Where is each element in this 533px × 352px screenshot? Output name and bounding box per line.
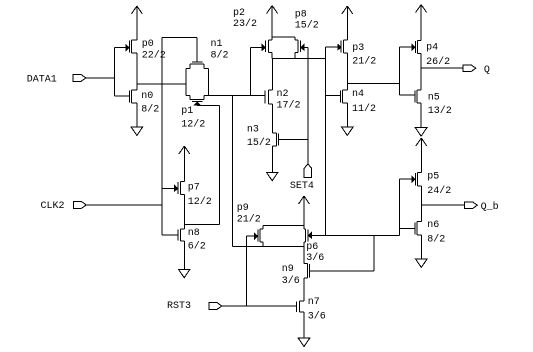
wire n5 source down bbox=[420, 103, 422, 128]
wire pass gate left side bbox=[185, 68, 187, 95]
wire RST3 to n7 gate bbox=[222, 305, 297, 307]
svg-text:13/2: 13/2 bbox=[428, 105, 452, 117]
label n6 8/2 bbox=[427, 220, 445, 245]
svg-text:15/2: 15/2 bbox=[295, 19, 319, 31]
wire n6 source down bbox=[420, 235, 422, 259]
wire p9 rail down bbox=[262, 242, 264, 247]
wire feedback up to p2 gate bbox=[249, 47, 251, 95]
svg-text:n6: n6 bbox=[427, 220, 439, 231]
svg-text:p1: p1 bbox=[181, 106, 193, 117]
wire p4/n5 gate bracket bbox=[398, 47, 400, 95]
wire n4 source down bbox=[346, 103, 348, 127]
input pin DATA1 bbox=[27, 75, 86, 86]
ground below n5 bbox=[415, 128, 427, 136]
svg-text:p2: p2 bbox=[233, 8, 245, 19]
wire p3/n4 gate bracket bbox=[324, 47, 326, 235]
transistor p4 (PMOS) bbox=[399, 40, 421, 53]
wire SET4 vertical bbox=[307, 47, 309, 164]
transistor p9 (PMOS) bbox=[247, 229, 263, 242]
input pin SET4 bbox=[290, 164, 314, 192]
svg-text:n0: n0 bbox=[141, 91, 153, 102]
transistor n5 (NMOS) bbox=[399, 90, 421, 103]
wire n9 source to n7 drain bbox=[303, 278, 305, 301]
label p1 12/2 bbox=[181, 106, 205, 131]
label p7 12/2 bbox=[188, 183, 212, 208]
transistor n0 (NMOS) bbox=[115, 90, 137, 103]
svg-text:12/2: 12/2 bbox=[181, 119, 205, 131]
svg-text:3/6: 3/6 bbox=[306, 252, 324, 264]
svg-text:n7: n7 bbox=[308, 297, 320, 308]
wire DATA1 to inverter gates bbox=[86, 77, 115, 79]
svg-text:n3: n3 bbox=[247, 125, 259, 136]
svg-text:8/2: 8/2 bbox=[141, 104, 159, 116]
label p2 23/2 bbox=[233, 8, 257, 30]
wire p2 rail down bbox=[271, 53, 273, 59]
wire p6 rail up bbox=[303, 225, 305, 229]
wire master node horizontal bbox=[208, 95, 265, 97]
svg-text:Q: Q bbox=[484, 65, 490, 76]
wire slave node to p4/n5 gates bbox=[347, 82, 399, 84]
wire CLK2 to clk net bbox=[86, 204, 162, 206]
wire p8 rail down bbox=[294, 53, 296, 59]
label p5 24/2 bbox=[427, 171, 451, 197]
label n8 6/2 bbox=[188, 228, 206, 253]
svg-text:n1: n1 bbox=[211, 39, 223, 50]
transistor p0 (PMOS) bbox=[115, 40, 137, 53]
power VDD arrow above p7 bbox=[179, 146, 190, 182]
svg-text:15/2: 15/2 bbox=[247, 137, 271, 149]
wire clkbar to p1 gate corner bbox=[184, 224, 219, 226]
svg-text:11/2: 11/2 bbox=[352, 103, 376, 115]
transistor n7 (NMOS) bbox=[297, 301, 304, 312]
svg-text:p9: p9 bbox=[237, 203, 249, 214]
svg-text:p4: p4 bbox=[426, 43, 438, 54]
transistor n8 (NMOS) bbox=[162, 229, 184, 241]
wire p9 gate vertical bbox=[246, 236, 248, 306]
wire p2 rail up bbox=[271, 37, 273, 40]
wire p2/p8 drain bar bbox=[272, 57, 325, 59]
transistor n2 (NMOS) bbox=[265, 90, 272, 104]
svg-text:6/2: 6/2 bbox=[188, 241, 206, 253]
wire inverter output to pass gate bbox=[137, 83, 186, 85]
svg-text:8/2: 8/2 bbox=[211, 49, 229, 61]
svg-text:p7: p7 bbox=[188, 183, 200, 194]
wire p3 drain to n4 drain bbox=[346, 53, 348, 90]
label p8 15/2 bbox=[295, 9, 319, 31]
wire CLK vertical bbox=[161, 38, 163, 236]
input pin CLK2 bbox=[41, 201, 87, 212]
wire n0 source down bbox=[136, 103, 138, 127]
label p0 22/2 bbox=[142, 39, 166, 61]
svg-text:n2: n2 bbox=[277, 89, 289, 100]
label p3 21/2 bbox=[352, 43, 376, 68]
wire Q_b output bbox=[421, 204, 464, 206]
label n1 8/2 bbox=[211, 39, 229, 61]
wire n7 source down bbox=[303, 312, 305, 338]
svg-text:17/2: 17/2 bbox=[277, 100, 301, 112]
power VDD arrow above p2 bbox=[267, 6, 278, 37]
ground below n8 bbox=[178, 269, 190, 277]
svg-text:p6: p6 bbox=[306, 242, 318, 253]
wire n2 drain up to bar bbox=[271, 58, 273, 89]
svg-text:p8: p8 bbox=[295, 9, 307, 20]
wire p1 gate vertical bbox=[218, 105, 220, 224]
svg-text:21/2: 21/2 bbox=[352, 56, 376, 68]
transistor n6 (NMOS) bbox=[399, 222, 421, 235]
label p4 26/2 bbox=[426, 43, 450, 68]
wire p0 drain to n0 drain bbox=[136, 53, 138, 90]
transistor p7 (PMOS) bbox=[162, 182, 184, 195]
transistor p5 (PMOS) bbox=[399, 173, 421, 186]
label n0 8/2 bbox=[141, 91, 159, 116]
label n3 15/2 bbox=[247, 125, 271, 149]
power VDD arrow above p3 bbox=[342, 6, 353, 40]
transistor n1 (NMOS pass, gate up) bbox=[186, 38, 209, 69]
svg-text:3/6: 3/6 bbox=[308, 311, 326, 323]
svg-text:21/2: 21/2 bbox=[237, 214, 261, 226]
transistor n3 (NMOS mirrored) bbox=[272, 133, 308, 146]
power VDD arrow above p9/p6 bbox=[299, 196, 310, 225]
svg-text:n5: n5 bbox=[428, 92, 440, 103]
ground below n3 bbox=[266, 172, 278, 180]
output pin Q_b bbox=[465, 201, 499, 213]
svg-text:Q_b: Q_b bbox=[481, 201, 499, 213]
svg-text:CLK2: CLK2 bbox=[41, 201, 65, 212]
label p9 21/2 bbox=[237, 203, 261, 226]
transistor p8 (PMOS mirrored) bbox=[295, 37, 308, 53]
label p6 3/6 bbox=[306, 242, 324, 264]
wire p4 drain to n5 drain bbox=[420, 54, 422, 90]
wire Q output bbox=[421, 67, 463, 69]
wire n3 source down bbox=[271, 146, 273, 172]
svg-text:26/2: 26/2 bbox=[426, 56, 450, 68]
svg-text:DATA1: DATA1 bbox=[27, 75, 57, 86]
transistor p6 (PMOS mirrored) bbox=[304, 229, 399, 242]
wire p5 drain to n6 drain bbox=[420, 186, 422, 222]
transistor n9 (NMOS mirrored) bbox=[304, 264, 374, 278]
output pin Q bbox=[463, 65, 490, 76]
ground below n7 bbox=[298, 338, 310, 346]
wire mn bottom bar bbox=[232, 246, 304, 248]
wire p9/p6 top bar bbox=[263, 224, 304, 226]
svg-text:12/2: 12/2 bbox=[188, 196, 212, 208]
svg-text:p0: p0 bbox=[142, 39, 154, 50]
wire p2/p8 top bar bbox=[272, 36, 295, 38]
svg-text:p3: p3 bbox=[352, 43, 364, 54]
svg-text:3/6: 3/6 bbox=[282, 275, 300, 287]
input pin RST3 bbox=[167, 301, 222, 312]
svg-text:n4: n4 bbox=[352, 89, 364, 100]
wire p5/n6 gate bracket bbox=[398, 179, 400, 235]
transistor n4 (NMOS) bbox=[325, 90, 347, 103]
svg-text:8/2: 8/2 bbox=[427, 233, 445, 245]
svg-text:RST3: RST3 bbox=[167, 301, 191, 312]
svg-text:24/2: 24/2 bbox=[427, 185, 451, 197]
wire p9 rail up bbox=[262, 225, 264, 229]
label n7 3/6 bbox=[308, 297, 326, 323]
wire n1 gate to clk net bbox=[162, 37, 197, 39]
wire p7 drain to n8 drain bbox=[183, 194, 185, 229]
transistor p2 (PMOS) bbox=[250, 40, 272, 53]
wire gate bracket p0/n0 bbox=[114, 48, 116, 96]
ground below n0 bbox=[131, 127, 143, 135]
svg-text:SET4: SET4 bbox=[290, 181, 314, 192]
wire p1 gate horizontal bbox=[197, 104, 219, 106]
transistor p1 (PMOS pass, gate down) bbox=[186, 96, 209, 105]
power VDD arrow above p5 bbox=[416, 138, 427, 173]
transistor p3 (PMOS) bbox=[325, 40, 347, 53]
ground below n4 bbox=[342, 127, 354, 135]
wire master node down bbox=[231, 96, 233, 247]
svg-text:p5: p5 bbox=[427, 171, 439, 182]
wire p6 drain down to n9 bbox=[303, 242, 305, 264]
svg-text:n8: n8 bbox=[188, 228, 200, 239]
svg-text:n9: n9 bbox=[282, 264, 294, 275]
label n5 13/2 bbox=[428, 92, 452, 117]
ground below n6 bbox=[416, 259, 428, 267]
wire pass gate right side bbox=[207, 68, 209, 95]
wire n9 gate feed down bbox=[373, 235, 375, 271]
wire n8 source down bbox=[183, 241, 185, 269]
label n2 17/2 bbox=[277, 89, 301, 112]
svg-text:23/2: 23/2 bbox=[233, 18, 257, 30]
power VDD arrow above p4 bbox=[416, 5, 427, 41]
power VDD arrow above p0 bbox=[131, 6, 142, 40]
wire n2 source to n3 drain bbox=[271, 104, 273, 133]
label n4 11/2 bbox=[352, 89, 376, 115]
label n9 3/6 bbox=[282, 264, 300, 287]
